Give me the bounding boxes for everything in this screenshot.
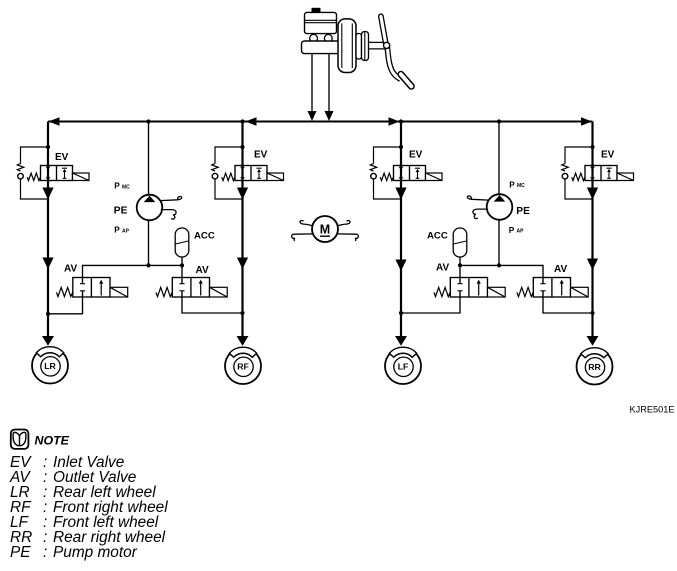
solenoid valve EV (channel 2) bbox=[212, 145, 284, 200]
node: AV3 outlet junction bbox=[399, 311, 403, 315]
wire: master cylinder output 2 bbox=[328, 53, 330, 112]
svg-text:P: P bbox=[509, 180, 515, 189]
arrow into wheel LR bbox=[42, 336, 54, 346]
arrow into wheel RR bbox=[587, 336, 599, 346]
svg-text:AV: AV bbox=[196, 265, 209, 276]
flow arrow channel 1 bbox=[42, 258, 53, 270]
arrow into channel 4 bbox=[581, 117, 592, 126]
arrow from master cylinder line 1 bbox=[308, 111, 317, 121]
accumulator left bbox=[175, 228, 189, 257]
node: bus / left pump bbox=[146, 119, 150, 123]
wheel LF bbox=[385, 347, 421, 384]
svg-text:P: P bbox=[114, 182, 120, 191]
wheel LR bbox=[32, 347, 68, 384]
node: left cross/pump junction bbox=[146, 263, 150, 267]
solenoid valve EV (channel 4) bbox=[562, 145, 634, 200]
svg-text:ACC: ACC bbox=[194, 231, 215, 242]
wire: right return cross line bbox=[460, 265, 543, 277]
pump PE left bbox=[137, 195, 163, 221]
node: left cross/acc junction bbox=[180, 263, 184, 267]
wheel RF bbox=[225, 347, 261, 384]
svg-text:PE: PE bbox=[10, 544, 31, 561]
note icon bbox=[11, 430, 29, 449]
master cylinder barrel bbox=[302, 41, 341, 54]
svg-text:LR: LR bbox=[44, 361, 56, 371]
wire: channel 1 main line (LR) bbox=[47, 122, 49, 338]
solenoid valve EV (channel 1) bbox=[17, 145, 89, 200]
svg-text:AV: AV bbox=[554, 264, 567, 275]
node: AV2 outlet junction bbox=[240, 311, 244, 315]
arrow into channel 1 bbox=[49, 117, 60, 126]
brake pedal upper arm bbox=[381, 16, 386, 43]
svg-text:Pump motor: Pump motor bbox=[53, 544, 138, 561]
node: right cross/pump junction bbox=[497, 263, 501, 267]
svg-text:EV: EV bbox=[409, 150, 423, 161]
svg-text:LF: LF bbox=[398, 362, 409, 372]
svg-text:RF: RF bbox=[237, 362, 249, 372]
node: bus / channel 2 bbox=[240, 119, 244, 123]
svg-text:AV: AV bbox=[64, 264, 77, 275]
svg-text:MC: MC bbox=[517, 183, 525, 189]
flow arrow channel 2 bbox=[237, 258, 248, 270]
svg-text:MC: MC bbox=[122, 184, 130, 190]
legend bbox=[9, 454, 168, 561]
node: bus / right pump bbox=[497, 119, 501, 123]
wire: AV2 outlet bbox=[182, 297, 243, 313]
wire: master cylinder output 1 bbox=[311, 53, 313, 112]
wire: left return cross line bbox=[83, 265, 183, 277]
reservoir bbox=[305, 12, 337, 33]
svg-text:PE: PE bbox=[516, 206, 530, 217]
brake booster shell bbox=[338, 19, 356, 73]
arrow into channel 2 bbox=[246, 117, 257, 126]
wire: right accumulator drop bbox=[459, 256, 461, 278]
svg-text:EV: EV bbox=[55, 152, 69, 163]
svg-text:AV: AV bbox=[436, 263, 449, 274]
node: right cross/acc junction bbox=[458, 263, 462, 267]
booster plate 1 bbox=[356, 34, 362, 60]
outlet port bumps bbox=[310, 34, 318, 42]
pedal pivot bbox=[384, 42, 390, 48]
svg-text:NOTE: NOTE bbox=[35, 434, 70, 448]
svg-text:AP: AP bbox=[122, 228, 130, 234]
flow arrow channel 3 bbox=[395, 260, 406, 272]
pedal pad bbox=[401, 74, 412, 86]
motor M bbox=[312, 216, 338, 242]
solenoid valve AV (channel 1) bbox=[56, 278, 127, 298]
svg-text:P: P bbox=[509, 226, 515, 235]
wire: AV3 outlet bbox=[401, 297, 460, 313]
pump PE right bbox=[487, 194, 513, 220]
svg-text:P: P bbox=[114, 226, 120, 235]
push rod bbox=[369, 41, 387, 43]
wire: channel 3 main line (LF) bbox=[400, 122, 402, 338]
wire: channel 2 main line (RF) bbox=[241, 122, 243, 338]
svg-text:KJRE501E: KJRE501E bbox=[630, 405, 675, 415]
svg-text:PE: PE bbox=[114, 206, 128, 217]
svg-text:EV: EV bbox=[254, 150, 268, 161]
wire: AV1 outlet bbox=[48, 297, 83, 314]
solenoid valve AV (channel 3) bbox=[434, 278, 505, 298]
wire: right pump line bbox=[498, 122, 500, 266]
arrow into channel 3 bbox=[389, 117, 400, 126]
wire: channel 4 main line (RR) bbox=[591, 122, 593, 338]
wire: left accumulator drop bbox=[181, 256, 183, 278]
solenoid valve EV (channel 3) bbox=[370, 145, 442, 200]
arrow from master cylinder line 2 bbox=[325, 111, 334, 121]
brake pedal lower arm bbox=[387, 47, 400, 79]
accumulator right bbox=[453, 228, 467, 257]
svg-text:EV: EV bbox=[601, 150, 615, 161]
wire: AV4 outlet bbox=[543, 297, 593, 313]
wheel RR bbox=[577, 348, 613, 385]
wire: left pump line bbox=[148, 122, 150, 266]
solenoid valve AV (channel 2) bbox=[156, 278, 227, 298]
svg-text:ACC: ACC bbox=[427, 231, 448, 242]
node: bus / channel 3 bbox=[399, 119, 403, 123]
svg-text::: : bbox=[43, 544, 47, 561]
svg-text:AP: AP bbox=[517, 229, 525, 235]
svg-text:M: M bbox=[320, 223, 330, 237]
svg-text:RR: RR bbox=[588, 362, 601, 372]
reservoir cap bbox=[312, 8, 321, 13]
arrow into wheel LF bbox=[395, 336, 407, 346]
booster plate 2 bbox=[362, 32, 369, 61]
solenoid valve AV (channel 4) bbox=[517, 278, 588, 298]
wire: main supply bus bbox=[48, 121, 593, 123]
flow arrow channel 4 bbox=[587, 259, 598, 271]
node: AV1 outlet junction bbox=[46, 312, 50, 316]
arrow into wheel RF bbox=[237, 336, 249, 346]
node: AV4 outlet junction bbox=[590, 311, 594, 315]
